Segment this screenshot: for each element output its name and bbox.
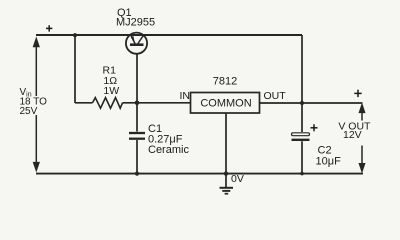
wire top rail xyxy=(36,34,302,36)
wire C2 top lead xyxy=(301,103,303,132)
output plus terminal xyxy=(354,90,361,97)
node junction C1 / bottom rail xyxy=(135,172,139,176)
input voltage dimension arrow xyxy=(34,39,39,170)
svg-text:12V: 12V xyxy=(343,129,362,141)
svg-text:25V: 25V xyxy=(20,106,38,117)
wire C2 bottom lead xyxy=(301,141,303,173)
capacitor C1 xyxy=(129,133,145,139)
wire right vertical from top rail xyxy=(301,35,303,103)
svg-text:1W: 1W xyxy=(103,85,119,97)
svg-text:OUT: OUT xyxy=(264,90,287,102)
wire C1 to bottom rail xyxy=(136,140,138,174)
ground xyxy=(220,174,234,194)
transistor Q1 xyxy=(126,33,147,54)
svg-text:IN: IN xyxy=(180,90,191,102)
svg-text:MJ2955: MJ2955 xyxy=(116,17,155,29)
resistor R1 xyxy=(93,98,123,109)
node junction COMMON / bottom rail / ground xyxy=(224,171,228,175)
wire Q1 base lead xyxy=(136,54,138,103)
svg-text:COMMON: COMMON xyxy=(200,98,251,110)
wire base junction down to C1 xyxy=(136,103,138,132)
wire bottom rail xyxy=(36,173,363,175)
plus polarity mark of C2 xyxy=(311,124,318,131)
node junction R1 / Q1 base / C1 xyxy=(135,101,140,106)
wire OUT pin to output terminal xyxy=(260,102,363,104)
wire COMMON pin lead xyxy=(225,113,227,174)
svg-text:0V: 0V xyxy=(231,173,244,185)
wire R1 left lead xyxy=(75,102,93,104)
wire R1 right lead to IN pin xyxy=(123,102,191,104)
node junction top rail / R1 branch xyxy=(73,33,77,37)
node junction OUT wire / right vertical xyxy=(300,101,304,105)
input plus terminal xyxy=(46,25,52,31)
output voltage dimension arrow xyxy=(360,105,365,171)
wire left branch vertical xyxy=(74,35,76,103)
node junction C2 / bottom rail xyxy=(300,172,304,176)
svg-text:10μF: 10μF xyxy=(316,156,342,168)
svg-text:7812: 7812 xyxy=(213,76,237,88)
capacitor C2 (polarized) xyxy=(292,133,310,140)
regulator U1 7812 box xyxy=(191,93,260,114)
svg-text:Ceramic: Ceramic xyxy=(148,144,189,156)
